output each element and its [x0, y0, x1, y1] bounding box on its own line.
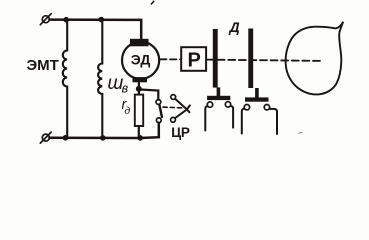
brush contact circle 1a — [207, 102, 212, 107]
switch contact top — [156, 100, 161, 105]
stray scan speck — [299, 132, 303, 133]
centrifugal actuator arm 1 — [175, 99, 189, 112]
wire resistor bottom — [138, 126, 140, 137]
svg-text:Р: Р — [188, 50, 201, 72]
centrifugal actuator circle bottom — [171, 117, 176, 122]
svg-text:Д: Д — [229, 19, 240, 35]
node: top bus junction 1 — [63, 17, 69, 23]
node: top bus junction 2 — [99, 17, 105, 23]
motor bottom brush — [133, 77, 148, 82]
brush contact circle 1b — [225, 102, 230, 107]
terminal bottom-left — [40, 132, 51, 143]
dashed shaft axis relay to disc coupling to saw — [207, 60, 321, 61]
switch blade — [159, 105, 162, 117]
disc 2 stem — [255, 88, 259, 98]
motor top brush — [130, 39, 149, 47]
wire motor bottom to node — [138, 82, 140, 95]
inductor shunt winding coil — [98, 21, 102, 137]
disc 2 foot — [245, 97, 269, 101]
wire to centrifugal switch — [140, 90, 158, 100]
brush holder 1b — [231, 106, 234, 128]
svg-text:ЭМТ: ЭМТ — [27, 57, 59, 74]
node: bottom bus junction 2 — [100, 135, 106, 141]
switch contact bottom — [156, 118, 161, 123]
wire bottom bus — [50, 123, 159, 138]
disc 2 — [248, 29, 253, 89]
node below motor — [136, 86, 142, 92]
resistor rd — [135, 95, 143, 126]
brush contact circle 2a — [244, 105, 249, 110]
node: bottom bus junction 3 — [137, 135, 143, 141]
brush contact circle 2b — [264, 105, 269, 110]
node: bottom bus junction 1 — [63, 135, 69, 141]
motor ЭД circle — [122, 42, 159, 79]
disc 1 stem — [217, 87, 221, 96]
terminal top-left — [40, 14, 51, 25]
relay box Р — [181, 47, 206, 71]
brush holder 1a — [205, 106, 207, 130]
centrifugal actuator arm 2 — [175, 105, 190, 118]
brush holder 2a — [242, 109, 245, 134]
stray scan tick top — [151, 1, 154, 5]
svg-text:ЦР: ЦР — [171, 125, 190, 140]
wire top bus — [50, 20, 142, 40]
saw blade disc outline — [286, 22, 344, 95]
centrifugal actuator circle top — [171, 95, 176, 100]
dashed mechanical link switch to actuator — [163, 106, 184, 109]
disc 1 foot — [207, 96, 230, 100]
brush holder 2b — [270, 109, 277, 134]
inductor ЭМТ coil — [63, 21, 67, 137]
disc 1 — [213, 29, 218, 88]
dashed shaft axis motor to relay — [160, 58, 180, 60]
svg-text:ЭД: ЭД — [131, 52, 151, 68]
